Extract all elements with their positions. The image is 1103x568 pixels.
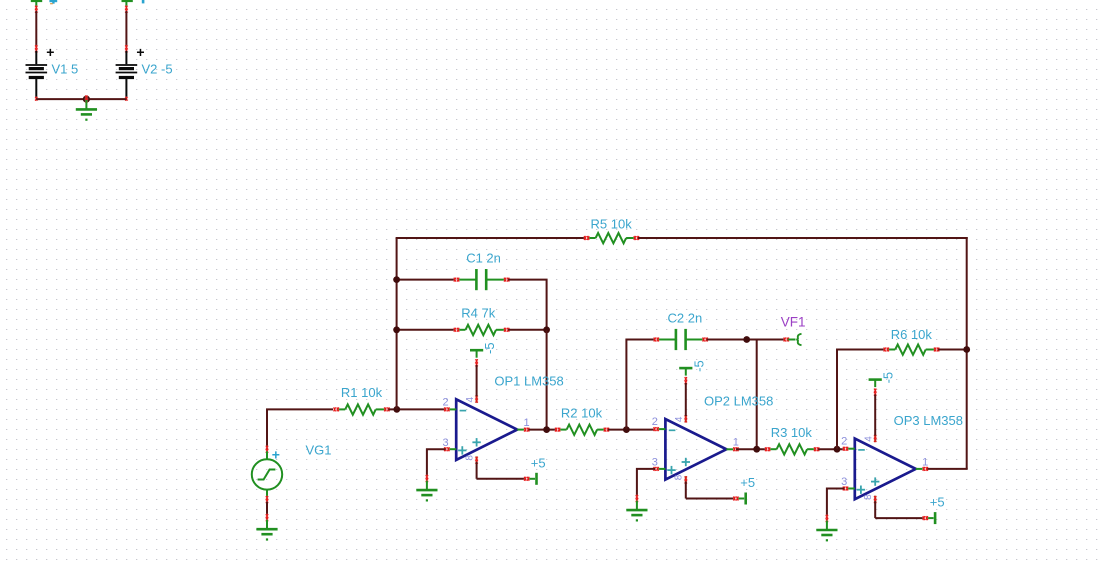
svg-text:R6 10k: R6 10k <box>891 327 933 342</box>
wire R6 right to right vertical <box>938 349 968 351</box>
battery V1 <box>26 44 55 101</box>
wire OP1 pin3 to ground <box>426 449 446 482</box>
wire OP1 output to node <box>529 429 556 431</box>
svg-text:1: 1 <box>524 417 530 429</box>
ground VG1 <box>256 520 277 541</box>
resistor R5 <box>584 233 639 243</box>
wire battery commons <box>36 98 126 100</box>
wire OP2 pin3 to ground <box>636 469 655 502</box>
svg-text:OP2 LM358: OP2 LM358 <box>704 393 773 408</box>
pin connection marks OP2 <box>654 415 739 484</box>
svg-text:R3 10k: R3 10k <box>771 425 813 440</box>
svg-text:2: 2 <box>652 416 658 428</box>
label OP3 LM358 <box>894 413 963 428</box>
wire V+ terminal to V1 <box>35 11 37 47</box>
junction R4 right <box>543 326 550 333</box>
wire right vertical <box>966 237 968 469</box>
label V2 -5 <box>142 62 173 77</box>
ground OP2 <box>626 501 647 522</box>
wire VG1 to ground <box>266 502 268 522</box>
svg-text:8: 8 <box>863 494 874 500</box>
svg-text:4: 4 <box>863 436 874 442</box>
label OP2 LM358 <box>704 393 773 408</box>
wire C2 right to VF1 <box>707 339 785 341</box>
svg-text:OP3 LM358: OP3 LM358 <box>894 413 963 428</box>
V- supply terminal -5 for OP2 <box>679 360 706 416</box>
battery V2 <box>116 44 145 101</box>
wire OP2 output to node <box>736 448 767 450</box>
junction C1 left <box>393 276 400 283</box>
label V1 5 <box>52 62 79 77</box>
wire OP3 output to right vertical <box>928 468 968 470</box>
svg-text:VF1: VF1 <box>781 315 806 330</box>
svg-text:R2 10k: R2 10k <box>561 405 603 420</box>
capacitor C2 <box>654 329 708 350</box>
op-amp OP3 <box>855 439 916 500</box>
svg-text:4: 4 <box>674 416 685 422</box>
wire R3 to OP3 pin2 <box>818 448 844 450</box>
power rail terminal above V1 (cut off) <box>31 0 57 13</box>
resistor R3 <box>765 444 819 454</box>
junction C2 tap <box>623 426 630 433</box>
svg-text:VG1: VG1 <box>306 443 332 458</box>
wire R4 right <box>508 329 547 331</box>
V+ supply +5 for OP1 <box>477 455 546 485</box>
svg-text:R5 10k: R5 10k <box>591 217 633 232</box>
wire R2 to OP2 pin2 <box>608 429 655 431</box>
wire R5 left segment <box>396 238 585 239</box>
source VG1 <box>252 446 282 504</box>
pin numbers OP1 <box>443 396 530 460</box>
pin numbers OP3 <box>841 436 928 500</box>
svg-text:+5: +5 <box>930 495 945 510</box>
capacitor C1 <box>454 269 509 290</box>
resistor R2 <box>555 425 609 435</box>
svg-text:-5: -5 <box>881 372 896 384</box>
junction OP2 output <box>753 446 760 453</box>
label VG1 <box>306 443 332 458</box>
label R3 10k <box>771 425 813 440</box>
V- supply terminal -5 for OP3 <box>869 372 896 436</box>
svg-text:8: 8 <box>674 474 685 480</box>
svg-text:C1 2n: C1 2n <box>466 251 501 266</box>
label C2 2n <box>668 310 703 325</box>
label R5 10k <box>591 217 633 232</box>
V- supply terminal -5 for OP1 <box>470 342 497 396</box>
junction C2 right <box>743 336 750 343</box>
wire V- terminal to V2 <box>125 11 127 47</box>
label C1 2n <box>466 251 501 266</box>
svg-text:C2 2n: C2 2n <box>668 310 703 325</box>
pin numbers OP2 <box>652 416 739 480</box>
wire mid vertical to OP1 output <box>546 330 548 430</box>
junction power ground node <box>83 95 90 102</box>
wire R5 right to right vertical <box>638 237 968 239</box>
svg-text:2: 2 <box>443 396 449 408</box>
junction OP1 output <box>543 426 550 433</box>
wire OP3 feedback vertical <box>837 350 885 450</box>
svg-text:R1 10k: R1 10k <box>341 385 383 400</box>
label R1 10k <box>341 385 383 400</box>
svg-text:-5: -5 <box>691 360 706 372</box>
junction OP3 pin2 node <box>834 446 841 453</box>
pin connection marks OP3 <box>843 435 928 504</box>
ground power supply <box>76 100 97 121</box>
voltage probe VF1 <box>784 334 802 345</box>
svg-text:+: + <box>272 447 280 463</box>
wire OP2 out vertical <box>756 339 758 450</box>
resistor R6 <box>884 345 939 355</box>
label OP1 LM358 <box>494 373 563 388</box>
svg-text:V2 -5: V2 -5 <box>142 62 173 77</box>
wire C1 left stub <box>397 279 455 281</box>
svg-text:R4 7k: R4 7k <box>461 306 495 321</box>
op-amp OP1 <box>456 399 517 460</box>
pin stubs OP3 <box>847 435 923 503</box>
svg-text:+: + <box>136 44 144 60</box>
V+ supply +5 for OP3 <box>875 495 944 525</box>
svg-text:+: + <box>46 44 54 60</box>
wire C2 left vertical <box>626 340 655 430</box>
V+ supply +5 for OP2 <box>686 475 755 505</box>
label R4 7k <box>461 306 495 321</box>
wire left feedback vertical <box>396 238 398 409</box>
power rail terminal above V2 (cut off) <box>122 0 145 13</box>
wire R1 to OP1 pin2 <box>388 408 445 410</box>
svg-text:+5: +5 <box>740 475 755 490</box>
svg-text:1: 1 <box>733 437 739 449</box>
svg-text:+5: +5 <box>531 455 546 470</box>
wire VG1 to R1 <box>267 409 333 447</box>
svg-text:OP1 LM358: OP1 LM358 <box>494 373 563 388</box>
svg-text:-5: -5 <box>482 342 497 354</box>
resistor R4 <box>454 325 509 335</box>
pin connection marks OP1 <box>444 395 529 464</box>
svg-text:2: 2 <box>841 436 847 448</box>
pin stubs OP1 <box>448 396 524 464</box>
wire R4 left stub <box>397 329 455 331</box>
svg-text:1: 1 <box>922 456 928 468</box>
svg-text:4: 4 <box>465 396 476 402</box>
ground OP3 <box>816 521 837 542</box>
junction R4 left <box>393 326 400 333</box>
resistor R1 <box>334 404 390 414</box>
wire C1 right to mid vertical <box>508 280 546 330</box>
svg-text:8: 8 <box>464 455 475 461</box>
junction R1 / feedback node <box>393 406 400 413</box>
ground OP1 <box>416 481 437 502</box>
op-amp OP2 <box>665 419 726 480</box>
label R6 10k <box>891 327 933 342</box>
svg-text:V1 5: V1 5 <box>52 62 79 77</box>
pin stubs OP2 <box>657 416 733 484</box>
junction R6 right <box>963 346 970 353</box>
label VF1 <box>781 315 806 330</box>
wire OP3 pin3 to ground <box>826 489 845 523</box>
label R2 10k <box>561 405 603 420</box>
